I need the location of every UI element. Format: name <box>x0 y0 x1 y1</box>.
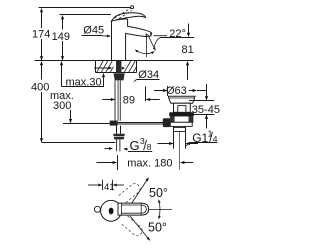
pop-up waste clamp row <box>170 116 193 122</box>
22° angle arc <box>135 50 154 54</box>
svg-text:50°: 50° <box>149 186 168 200</box>
svg-text:Ø45: Ø45 <box>83 25 104 37</box>
50° lower angle line <box>130 216 150 240</box>
22° aerator level extension <box>154 35 168 37</box>
svg-text:G1: G1 <box>192 131 208 145</box>
label Ø45 leader <box>82 35 103 37</box>
dim 89 extension line (spout axis) <box>145 86 147 101</box>
svg-text:8: 8 <box>147 142 152 152</box>
hose nut G3/8 <box>113 134 125 140</box>
pop-up rod knob (plan view) <box>94 206 100 212</box>
pop-up waste dark band <box>169 112 194 116</box>
G3/8 label underline <box>128 151 152 153</box>
dimension 174 vertical <box>41 9 43 28</box>
supply hose <box>116 126 118 134</box>
cartridge dot <box>109 208 114 215</box>
svg-text:41: 41 <box>104 182 115 193</box>
swing arc double arrow <box>159 200 160 219</box>
svg-text:max. 180: max. 180 <box>127 158 172 170</box>
svg-text:81: 81 <box>182 44 194 56</box>
faucet body <box>112 19 152 61</box>
tailpipe <box>173 126 175 148</box>
hose end reference line (400 bottom) <box>42 142 116 144</box>
svg-text:G: G <box>130 138 140 153</box>
svg-text:3: 3 <box>140 136 145 146</box>
dimension 400 vertical <box>41 62 43 80</box>
svg-text:22°: 22° <box>169 28 186 40</box>
dim 41 extension bars <box>102 180 104 191</box>
dashed raised lever <box>115 8 132 18</box>
wire: top extension line (174 level) <box>39 7 131 9</box>
svg-text:149: 149 <box>52 31 70 43</box>
svg-text:89: 89 <box>123 95 135 107</box>
dimension 149 vertical <box>62 16 64 30</box>
pop-up waste neck <box>174 103 191 112</box>
dim Ø63 <box>167 86 169 96</box>
dim 35-45 stem top <box>206 84 208 100</box>
faucet lever <box>111 13 145 21</box>
label Ø34 leader <box>137 79 160 81</box>
body circle (plan view) <box>101 200 122 221</box>
50° upper angle line <box>130 178 149 207</box>
dim arrow inside deck (hole left edge) <box>94 67 112 69</box>
G3/8 fraction slash <box>144 140 147 150</box>
shank below deck <box>116 61 121 73</box>
max.180 arrows <box>97 162 117 164</box>
spout aerator ticks <box>145 33 147 36</box>
deck top reference line <box>35 60 194 62</box>
max.300 reference line (rod lowest point) <box>63 123 110 125</box>
horizontal pop-up linkage rod <box>118 122 166 124</box>
max.30 bracket <box>61 62 63 87</box>
raised lever tip knob <box>131 6 134 9</box>
dim 89 arrows <box>102 99 114 101</box>
dim arrow inside deck (hole right edge) <box>122 67 125 70</box>
svg-text:300: 300 <box>53 100 71 112</box>
svg-text:400: 400 <box>31 81 49 93</box>
lever (plan view) <box>118 203 149 215</box>
dim 81 top reference line <box>160 37 194 39</box>
svg-text:max.30: max.30 <box>66 76 102 88</box>
G1 1/4 fraction slash <box>210 132 213 142</box>
svg-text:174: 174 <box>32 28 50 40</box>
threaded rod <box>118 81 120 121</box>
dim G1 1/4 extension bars <box>173 139 175 149</box>
pop-up waste body <box>170 122 192 126</box>
svg-text:Ø34: Ø34 <box>138 69 159 81</box>
dashed rotated lever (up) <box>119 182 142 204</box>
dim 81 bottom arrow <box>187 62 189 80</box>
22° angle vertical reference <box>146 34 148 57</box>
G1 1/4 label leader <box>190 142 217 144</box>
pop-up rod (thin) <box>114 81 116 123</box>
dashed rotated lever (down) <box>121 216 144 238</box>
wire: extension line (149 level) <box>60 14 112 16</box>
lever axis line <box>149 209 172 211</box>
hose end below nut <box>116 139 118 151</box>
22° angled line <box>148 34 156 50</box>
max.180 left extension <box>117 155 119 170</box>
dim 41 arrows <box>88 184 102 186</box>
rod junction clamp <box>110 121 118 126</box>
mounting nut <box>114 73 125 80</box>
drain centerline <box>179 132 181 170</box>
svg-text:50°: 50° <box>148 220 167 234</box>
svg-text:35-45: 35-45 <box>192 104 220 116</box>
G3/8 size arrows at hose end <box>105 148 113 150</box>
rod ball joint knob <box>163 118 171 127</box>
max.300 arrow <box>70 110 72 123</box>
deck slab <box>96 61 137 73</box>
svg-text:4: 4 <box>213 134 218 144</box>
svg-text:Ø63: Ø63 <box>166 85 187 97</box>
pop-up waste flange <box>168 96 195 103</box>
